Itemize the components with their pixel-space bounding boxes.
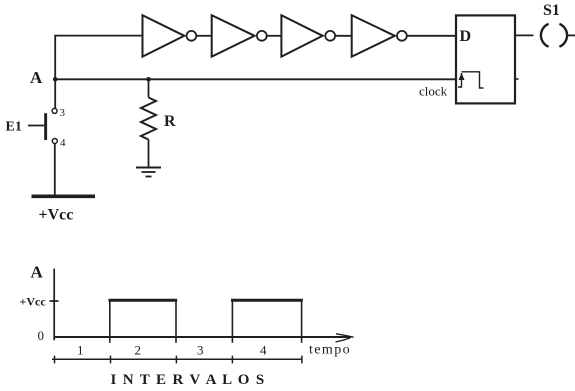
svg-text:clock: clock [419,84,448,99]
svg-text:4: 4 [60,137,66,149]
svg-text:4: 4 [260,343,267,358]
wire U4 to flip-flop D input [407,35,456,37]
svg-text:+Vcc: +Vcc [39,207,74,224]
flip-flop Q-bar stub on right edge [515,78,519,80]
inverter U2 bubble [257,31,267,41]
svg-text:D: D [460,28,472,45]
pushbutton E1 actuator bar [44,113,47,140]
intervals ruler line [52,358,303,360]
svg-text:R: R [164,113,176,130]
wire U1 to U2 [196,35,211,37]
flip-flop U5 body [456,15,515,103]
inverter U1 bubble [187,31,197,41]
svg-text:A: A [30,68,43,87]
output coil S1 [541,24,567,47]
svg-text:2: 2 [135,343,142,358]
svg-text:I N T E R V A L O S: I N T E R V A L O S [111,372,266,388]
pushbutton E1 stem [28,125,44,127]
inverter U3 [281,15,322,56]
svg-text:E1: E1 [6,120,22,135]
wire S1 output stub [568,34,575,36]
inverter U1 [143,15,185,56]
svg-text:S1: S1 [543,2,560,19]
svg-text:+Vcc: +Vcc [20,295,47,309]
clock edge pulse symbol [458,72,484,88]
svg-text:3: 3 [197,343,204,358]
ruler ticks [55,356,302,364]
pulse 2 falling edge / tick [301,301,303,343]
timing diagram: time axis [54,336,351,338]
pulse 1 rising edge / tick [109,301,111,343]
timing diagram: vertical axis [53,269,55,341]
time axis arrowhead [336,334,354,342]
junction node at resistor [146,77,151,82]
wire U2 to U3 [267,35,282,37]
wire junction to resistor top [148,79,150,97]
wire node A horizontal to flip-flop clock [55,78,456,80]
wire U3 to U4 [335,35,352,37]
wire from node A up and right to first inverter input [55,36,142,80]
pulse 2 rising edge / tick [231,301,233,343]
wire node A down to pushbutton pin 3 [54,79,56,108]
node A junction dot [53,77,58,82]
svg-text:0: 0 [38,328,45,343]
wire resistor bottom to ground [148,140,150,168]
+Vcc level tick [50,300,59,302]
inverter U3 bubble [325,31,335,41]
pulse 1 falling edge / tick [175,301,177,343]
svg-text:3: 3 [60,107,66,119]
pushbutton E1 pin 3 terminal [52,108,57,113]
inverter U2 [212,15,255,56]
svg-text:1: 1 [77,343,84,358]
pushbutton E1 pin 4 terminal [52,139,57,144]
inverter U4 [352,15,395,56]
resistor R [141,98,156,140]
+Vcc rail bar [32,195,96,199]
wire pin 4 to +Vcc rail [54,144,56,197]
svg-text:tempo: tempo [309,343,351,358]
inverter U4 bubble [397,31,407,41]
pulse 2 top [231,299,303,302]
pulse 1 top [109,299,178,302]
ground [136,168,161,177]
svg-text:A: A [31,263,44,282]
wire flip-flop Q output to S1 [515,34,534,36]
